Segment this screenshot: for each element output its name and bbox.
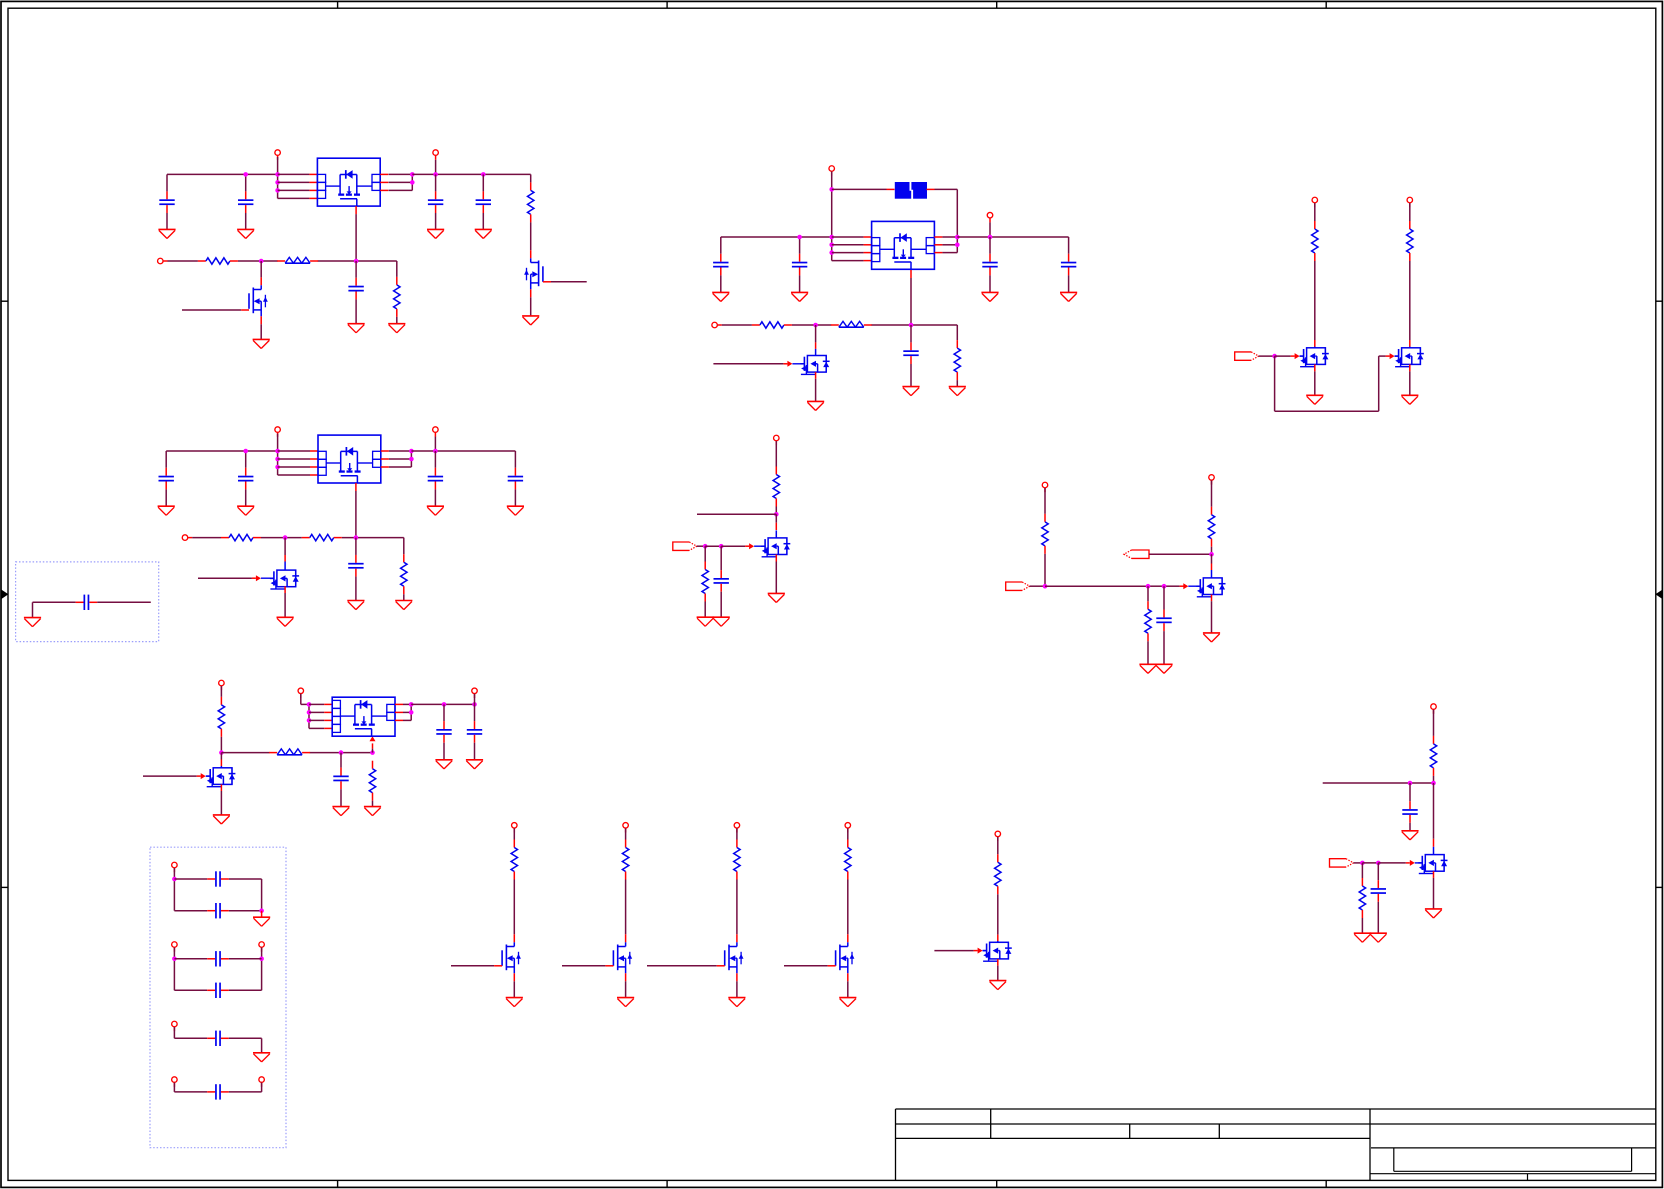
- junction J51: [1376, 861, 1381, 866]
- ground G44: [989, 981, 1006, 990]
- wire U4 left pins (pin stubs): [864, 237, 872, 261]
- resistor R6: [401, 554, 407, 594]
- wire Q1 drain lead: [530, 250, 532, 258]
- ground G13: [347, 601, 364, 610]
- transistor Q9: [1196, 578, 1225, 597]
- wire I5 r-q: [997, 894, 999, 941]
- ic U3: [332, 697, 395, 736]
- junction J28: [442, 702, 447, 707]
- resistor R2: [198, 258, 238, 264]
- terminal P23: [995, 831, 1001, 841]
- wire fuse feed: [832, 188, 895, 190]
- port PORT3: [1006, 582, 1030, 590]
- wire I4 t-r: [847, 828, 849, 839]
- wire U3 fb pin: [370, 736, 376, 752]
- wire G r15-j: [1044, 554, 1046, 586]
- wire bx2 g1 left: [173, 868, 175, 911]
- node VOUT1 rail: [412, 174, 530, 182]
- capacitor C7: [238, 451, 253, 506]
- wire Q9 source: [1211, 595, 1213, 633]
- port PORT5: [1330, 859, 1354, 867]
- wire U1 bottom pin: [355, 206, 357, 261]
- wire U2 left pins (pin stubs): [310, 451, 318, 475]
- ground G36: [1401, 831, 1418, 840]
- node FB4 rail: [722, 325, 958, 340]
- ground G40: [506, 998, 523, 1007]
- terminal P13: [1312, 197, 1318, 207]
- wire Q5 gate (gate drive): [713, 361, 804, 367]
- resistor R11: [1312, 221, 1318, 261]
- capacitor C18: [903, 325, 918, 387]
- wire G t1-r15: [1044, 488, 1046, 514]
- dashed group box 1: [16, 562, 159, 642]
- wire bx2 g1 right: [261, 879, 263, 911]
- wire Q13 source: [736, 973, 738, 997]
- junction J44: [1043, 584, 1048, 589]
- transistor Q12: [613, 942, 632, 973]
- resistor R18: [1430, 736, 1436, 776]
- junction J35: [955, 235, 960, 240]
- ground G47: [253, 1053, 270, 1062]
- node FB2 rail: [192, 538, 404, 555]
- wire fuse out: [927, 189, 958, 237]
- transistor Q5: [800, 349, 829, 375]
- wire E t2-r12: [1409, 203, 1411, 221]
- resistor R14: [702, 562, 708, 602]
- wire Q13 gate in: [647, 965, 725, 967]
- terminal P10: [829, 166, 835, 176]
- wire U1 right pins (pin stubs): [380, 174, 388, 190]
- wire Q9 drain: [1211, 554, 1213, 578]
- ground G42: [728, 998, 745, 1007]
- wire Q2 drain: [260, 261, 262, 285]
- wire G in net: [1030, 585, 1045, 587]
- junction J18: [283, 535, 288, 540]
- wire bx2 g2 left: [173, 948, 175, 991]
- terminal P28: [172, 1077, 178, 1087]
- right edge center arrow: [1655, 590, 1662, 599]
- wire Q11 gate in: [451, 965, 502, 967]
- junction J27: [409, 710, 414, 715]
- wire bx2 g1 gnd: [261, 911, 263, 918]
- wire Q1 source: [530, 289, 532, 316]
- terminal P2: [433, 150, 439, 160]
- wire Q4 gate (gate drive): [143, 773, 210, 779]
- resistor R15: [1042, 514, 1048, 554]
- wire C term-r7: [220, 686, 222, 697]
- terminal P24: [172, 862, 178, 872]
- wire G r16-j: [1211, 547, 1213, 554]
- ic U4: [872, 221, 935, 269]
- wire A t2 stem: [435, 160, 437, 175]
- wire B pin rows: [278, 451, 310, 475]
- terminal P12: [712, 322, 722, 328]
- resistor R10: [954, 340, 960, 380]
- junction J26: [409, 702, 414, 707]
- capacitor C29: [174, 1084, 261, 1099]
- wire I4 r-q: [847, 880, 849, 943]
- transistor Q4: [206, 766, 235, 787]
- transistor Q10: [1418, 847, 1447, 874]
- wire D t2 stem: [989, 222, 991, 237]
- ground G3: [427, 229, 444, 238]
- wire Q2 gate in: [182, 309, 241, 311]
- terminal P25: [172, 942, 178, 952]
- wire F r14 tail: [704, 602, 706, 618]
- ground G12: [507, 506, 524, 515]
- ground G45: [24, 618, 41, 627]
- wire G flag net: [1149, 553, 1212, 555]
- wire Q15 gate (gate drive): [934, 948, 986, 954]
- wire A pin rows: [278, 174, 310, 198]
- port PORT2: [673, 542, 697, 550]
- transistor Q6: [1300, 347, 1329, 367]
- wire bx2 g3 right: [261, 1038, 263, 1053]
- junction J50: [1360, 861, 1365, 866]
- transistor Q1: [524, 258, 543, 289]
- resistor R22: [734, 840, 740, 880]
- wire G t2-r16: [1211, 480, 1213, 506]
- junction J34: [829, 250, 834, 255]
- wire D pin rows: [832, 237, 864, 261]
- junction J24: [307, 710, 312, 715]
- wire D right jog: [942, 237, 957, 253]
- capacitor C14: [713, 237, 728, 292]
- resistor R1: [528, 182, 534, 222]
- wire I2 r-q: [625, 880, 627, 943]
- junction J46: [1162, 584, 1167, 589]
- junction J41: [774, 512, 779, 517]
- ground G2: [237, 229, 254, 238]
- transistor Q13: [725, 942, 744, 973]
- ground G30: [768, 593, 785, 602]
- ground G41: [617, 998, 634, 1007]
- terminal P9: [472, 688, 478, 698]
- resistor R20: [511, 840, 517, 880]
- junction J6: [410, 180, 415, 185]
- junction J54: [172, 957, 177, 962]
- wire box1 gnd leg: [32, 602, 34, 617]
- ground G9: [158, 506, 175, 515]
- ground G25: [902, 387, 919, 396]
- wire Q3 gate (gate drive): [198, 575, 274, 581]
- terminal P11: [987, 212, 993, 222]
- resistor R24: [995, 854, 1001, 894]
- wire I5 t-r: [997, 837, 999, 854]
- ground G33: [1203, 633, 1220, 642]
- resistor R17: [1145, 601, 1151, 641]
- wire R6 tail: [403, 594, 405, 600]
- inductor (ferrite bead) L2: [269, 749, 310, 755]
- node G gate rail: [1045, 585, 1180, 587]
- wire Q10 source: [1433, 871, 1435, 909]
- capacitor C21: [1402, 783, 1417, 831]
- junction J33: [829, 243, 834, 248]
- transistor Q3: [270, 562, 299, 590]
- node VOUT2 rail: [411, 450, 515, 452]
- ground G4: [475, 229, 492, 238]
- wire I2 t-r: [625, 828, 627, 839]
- inductor (ferrite bead) L1: [277, 257, 318, 263]
- transistor Q8: [761, 530, 790, 557]
- wire U4 right pins (pin stubs): [934, 237, 942, 253]
- wire Q5 drain: [815, 325, 817, 349]
- junction J39: [909, 323, 914, 328]
- capacitor C15: [792, 237, 807, 292]
- wire bx2 g4 right: [261, 1083, 263, 1092]
- wire C pin rows: [309, 704, 324, 728]
- transistor Q2: [249, 285, 268, 316]
- wire H r19 tail: [1361, 918, 1363, 933]
- resistor R7: [218, 697, 224, 737]
- wire U3 left pins (pin stubs): [324, 704, 332, 728]
- capacitor C11: [333, 753, 348, 807]
- ground G8: [388, 324, 405, 333]
- ground G26: [949, 387, 966, 396]
- capacitor C1: [159, 174, 174, 229]
- wire U3 right pins (pin stubs): [395, 704, 403, 720]
- resistor R21: [622, 840, 628, 880]
- resistor R12: [1407, 221, 1413, 261]
- wire F stub left: [697, 513, 776, 515]
- junction J45: [1146, 584, 1151, 589]
- port PORT4: [1124, 550, 1149, 558]
- wire Q1 gate out: [551, 281, 587, 283]
- port PORT1: [1235, 352, 1259, 360]
- junction J5: [410, 172, 415, 177]
- terminal P7: [219, 680, 225, 690]
- wire G r17 tail: [1147, 641, 1149, 664]
- wire bx2 g2 right: [261, 948, 263, 991]
- wire R3 tail: [396, 317, 398, 324]
- wire A bus: [277, 157, 279, 198]
- wire U4 bottom pin: [910, 270, 912, 325]
- capacitor C12: [436, 704, 451, 759]
- node FB1 rail: [168, 261, 397, 277]
- wire Q9 gate stub: [1180, 583, 1201, 589]
- wire E r12-q7: [1409, 261, 1411, 347]
- wire Q3 source: [284, 586, 286, 617]
- transistor Q14: [836, 942, 855, 973]
- wire Q10 gate (gate drive): [1378, 860, 1422, 866]
- resistor R4: [221, 534, 261, 540]
- capacitor C6: [159, 451, 174, 506]
- junction J30: [829, 187, 834, 192]
- capacitor C3: [428, 174, 443, 229]
- ground G11: [427, 506, 444, 515]
- junction J37: [988, 235, 993, 240]
- node VIN4 rail: [721, 236, 832, 238]
- wire F gate net2: [705, 545, 721, 547]
- wire Q2 gate stub: [241, 309, 249, 311]
- wire U2 right pins (pin stubs): [381, 451, 389, 467]
- wire U1 left pins (pin stubs): [309, 174, 317, 198]
- left edge center arrow: [1, 590, 8, 599]
- wire Q14 gate in: [784, 965, 836, 967]
- junction J16: [409, 457, 414, 462]
- wire Q11 source: [513, 973, 515, 997]
- wire Q12 source: [625, 973, 627, 997]
- ground G1: [158, 229, 175, 238]
- terminal P17: [1209, 475, 1215, 485]
- wire G r17 lead: [1147, 586, 1149, 601]
- ground G43: [839, 998, 856, 1007]
- ground G7: [348, 324, 365, 333]
- wire H r19 lead: [1361, 863, 1363, 878]
- junction J38: [813, 323, 818, 328]
- transistor Q15: [983, 941, 1012, 961]
- capacitor C25: [174, 903, 261, 918]
- wire F t-r13: [775, 441, 777, 467]
- ic U1: [317, 158, 380, 206]
- junction J17: [433, 449, 438, 454]
- junction J52: [172, 877, 177, 882]
- wire I3 t-r: [736, 828, 738, 839]
- resistor R23: [845, 840, 851, 880]
- transistor Q7: [1395, 347, 1424, 367]
- wire U2 bottom pin: [355, 483, 357, 538]
- ground G27: [807, 401, 824, 410]
- capacitor C22: [1371, 863, 1386, 933]
- junction J2: [275, 172, 280, 177]
- title block: [896, 1109, 1656, 1180]
- wire C t2 stem: [474, 694, 476, 705]
- junction J49: [1431, 781, 1436, 786]
- wire R10 tail: [956, 380, 958, 387]
- terminal P19: [512, 823, 518, 833]
- junction J4: [275, 188, 280, 193]
- junction J48: [1408, 781, 1413, 786]
- wire I1 r-q: [513, 880, 515, 943]
- wire C bus: [301, 694, 309, 729]
- terminal P8: [298, 688, 304, 698]
- fuse F1: [895, 182, 927, 200]
- terminal P18: [1431, 704, 1437, 714]
- wire Q7 gate (gate drive): [1379, 353, 1399, 359]
- wire Q4 source: [220, 784, 222, 815]
- resistor R3: [394, 277, 400, 317]
- wire I3 r-q: [736, 880, 738, 943]
- wire H r18-j: [1433, 776, 1435, 783]
- wire Q14 source: [847, 973, 849, 997]
- wire D bus: [831, 172, 833, 261]
- ground G10: [237, 506, 254, 515]
- ground G15: [277, 617, 294, 626]
- ground G35: [1155, 664, 1172, 673]
- terminal P29: [259, 1077, 265, 1087]
- wire B bus: [277, 434, 279, 475]
- terminal P3: [158, 258, 168, 264]
- ground G19: [435, 760, 452, 769]
- terminal P20: [623, 823, 629, 833]
- ic U2: [318, 435, 381, 483]
- terminal P15: [774, 435, 780, 445]
- junction J12: [275, 449, 280, 454]
- capacitor C23: [33, 595, 151, 610]
- junction J19: [354, 535, 359, 540]
- ground G6: [253, 339, 270, 348]
- capacitor C8: [428, 451, 443, 506]
- wire H gate net2: [1362, 862, 1378, 864]
- capacitor C5: [348, 261, 363, 324]
- ground G16: [332, 807, 349, 816]
- ground G20: [466, 760, 483, 769]
- wire B t2 stem: [434, 437, 436, 451]
- terminal P26: [259, 942, 265, 952]
- ground G22: [791, 292, 808, 301]
- junction J11: [243, 449, 248, 454]
- terminal P21: [734, 823, 740, 833]
- wire Q6 source: [1314, 364, 1316, 395]
- wire A r1-q1: [530, 222, 532, 250]
- junction J47: [1209, 552, 1214, 557]
- node VOUT4 rail: [957, 236, 1068, 238]
- capacitor C10: [348, 538, 363, 601]
- wire C r7-j: [220, 737, 222, 753]
- junction J10: [354, 259, 359, 264]
- terminal P16: [1042, 482, 1048, 492]
- capacitor C4: [476, 174, 491, 229]
- wire Q5 source: [815, 372, 817, 401]
- ground G29: [1401, 395, 1418, 404]
- wire H gate net: [1354, 862, 1363, 864]
- ground G14: [395, 601, 412, 610]
- terminal P1: [275, 150, 281, 160]
- capacitor C17: [1061, 237, 1076, 292]
- wire Q8 gate (gate drive): [721, 543, 765, 549]
- terminal P5: [433, 427, 439, 437]
- junction J22: [370, 750, 375, 755]
- ground G38: [1354, 933, 1371, 942]
- wire E gate net: [1259, 355, 1275, 357]
- junction J21: [339, 750, 344, 755]
- junction J55: [259, 957, 264, 962]
- capacitor C9: [508, 451, 523, 506]
- wire Q2 source: [260, 316, 262, 339]
- wire Q8 drain: [775, 514, 777, 530]
- junction J32: [829, 235, 834, 240]
- capacitor C28: [174, 1031, 261, 1046]
- transistor Q11: [502, 942, 521, 973]
- node SW3 rail: [221, 752, 372, 754]
- ground G24: [1060, 292, 1077, 301]
- junction J15: [409, 449, 414, 454]
- wire F r14 lead: [704, 546, 706, 561]
- junction J1: [243, 172, 248, 177]
- ground G28: [1306, 395, 1323, 404]
- capacitor C16: [982, 237, 997, 292]
- ground G39: [1370, 933, 1387, 942]
- junction J25: [307, 718, 312, 723]
- ground G34: [1139, 664, 1156, 673]
- capacitor C26: [174, 951, 261, 966]
- wire E t1-r11: [1314, 203, 1316, 221]
- wire A right jog: [389, 174, 413, 190]
- wire Q12 gate in: [562, 965, 613, 967]
- wire F r13-j: [775, 507, 777, 515]
- node VIN2 rail: [166, 450, 277, 452]
- wire H t-r18: [1433, 710, 1435, 736]
- inductor (ferrite bead) L3: [831, 321, 872, 327]
- ground G18: [213, 815, 230, 824]
- capacitor C13: [467, 704, 482, 759]
- resistor R13: [773, 467, 779, 507]
- ground G37: [1425, 909, 1442, 918]
- resistor R16: [1208, 507, 1214, 547]
- junction J36: [955, 243, 960, 248]
- wire I1 t-r: [513, 828, 515, 839]
- ground G5: [522, 316, 539, 325]
